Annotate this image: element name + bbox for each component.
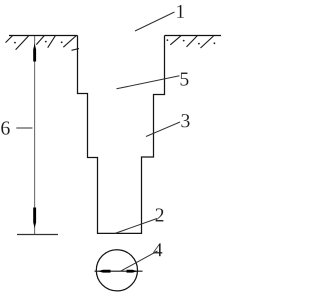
leader 5 <box>117 76 180 89</box>
leader 2 <box>115 219 157 234</box>
leader 6 <box>16 127 32 129</box>
dimension arrow top <box>33 44 36 62</box>
dimension extension line bottom <box>17 234 58 236</box>
diameter arrow left <box>98 270 111 273</box>
ground surface line left <box>9 35 78 37</box>
leader 1 <box>135 12 175 31</box>
leader 4 <box>121 251 158 271</box>
label 1 <box>177 5 184 18</box>
ground hatching left <box>6 35 80 50</box>
label 3 <box>181 114 189 127</box>
diameter arrow right <box>127 270 138 273</box>
ground hatching right <box>170 35 213 48</box>
pipe circle <box>96 250 137 291</box>
label 2 <box>156 208 164 221</box>
trench excavation outline <box>78 36 165 234</box>
label 5 <box>181 73 189 86</box>
label 4 <box>153 243 162 256</box>
dimension line 6 (vertical) <box>34 36 36 235</box>
dimension arrow bottom <box>33 208 36 229</box>
pipe diameter line <box>95 270 143 272</box>
leader 3 <box>146 122 180 137</box>
label 6 <box>1 121 9 134</box>
ground surface line right <box>165 35 222 37</box>
